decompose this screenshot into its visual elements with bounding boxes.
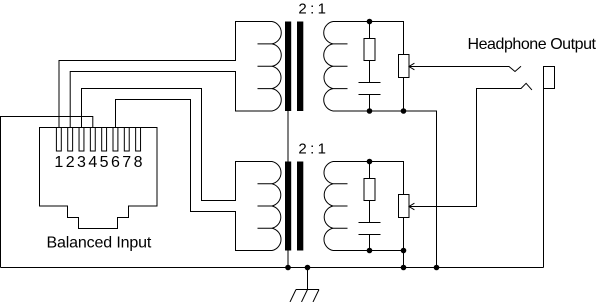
svg-text:Headphone Output: Headphone Output <box>468 36 597 53</box>
capacitor C1 <box>359 83 381 95</box>
resistor R2 lead top <box>369 162 371 179</box>
junction dots <box>285 19 439 271</box>
potentiometer VR1 <box>399 55 410 78</box>
T2 primary loop stubs <box>258 184 273 228</box>
transformer T2 secondary winding <box>324 162 333 251</box>
T1 secondary loop stubs <box>333 44 348 89</box>
wire headphone jack sleeve to ground bus <box>543 89 545 268</box>
svg-text:2 : 1: 2 : 1 <box>298 141 325 158</box>
J1 pin contact slots 1-8 <box>56 128 140 152</box>
VR2 wiper arrow and wire to jack ring contact <box>409 83 532 206</box>
C1 lead bottom <box>369 95 371 112</box>
wire T2 secondary top to volume pot VR2 <box>333 162 404 195</box>
resistor R1 <box>364 39 375 61</box>
svg-text:12345678: 12345678 <box>54 154 145 171</box>
T2 secondary loop stubs <box>333 184 348 228</box>
wire ground bus to J1 pin 4 <box>1 117 93 268</box>
wire T2 secondary bottom <box>333 250 404 252</box>
transformer T1 primary winding with wires to J1 pins 1 and 2 <box>59 22 281 128</box>
headphone jack plug tip <box>544 67 555 89</box>
resistor R2 <box>364 179 375 201</box>
C2 lead bottom <box>369 235 371 251</box>
svg-text:Balanced Input: Balanced Input <box>47 235 152 252</box>
VR1 wiper arrow and wire to jack tip contact <box>409 66 521 71</box>
T1 primary loop stubs <box>258 44 273 89</box>
transformer T1 secondary winding <box>324 22 333 112</box>
resistor R1 lead top <box>369 22 371 39</box>
capacitor C2 <box>359 223 381 235</box>
wire R2 to capacitor C2 <box>369 201 371 223</box>
VR2 bottom lead to ground bus <box>403 218 405 268</box>
VR1 bottom lead <box>403 78 405 112</box>
transformer T2 core <box>285 162 291 251</box>
transformer T2 primary winding with wires to J1 pins 3 and 6 <box>82 89 282 251</box>
ground symbol <box>290 268 319 302</box>
wire T1 secondary bottom to ground bus <box>333 111 437 268</box>
ground bus wire <box>1 267 544 269</box>
wire R1 to capacitor C1 <box>369 61 371 83</box>
connector J1 RJ45 jack outline <box>40 128 158 229</box>
svg-text:2 : 1: 2 : 1 <box>298 1 325 18</box>
potentiometer VR2 <box>399 195 410 218</box>
wire T1 secondary top to volume pot VR1 <box>333 22 404 55</box>
transformer T1 core <box>285 22 291 112</box>
electrostatic screen wire T1 core to ground bus <box>287 111 289 268</box>
